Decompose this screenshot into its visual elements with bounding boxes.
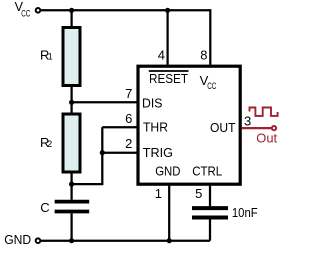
svg-text:1: 1: [155, 186, 162, 201]
svg-text:10nF: 10nF: [232, 205, 258, 220]
svg-text:8: 8: [200, 48, 207, 63]
svg-text:RESET: RESET: [149, 71, 188, 86]
wire C to ground rail: [70, 213, 72, 240]
wire pin 4 stub: [166, 10, 168, 65]
wire R2 bottom to THR/TRIG branch: [72, 127, 103, 184]
svg-text:THR: THR: [143, 119, 168, 134]
svg-text:4: 4: [158, 48, 165, 63]
wire VCC rail to pin 8: [41, 10, 210, 65]
svg-text:Out: Out: [256, 131, 277, 146]
svg-text:GND: GND: [155, 164, 180, 179]
square wave icon: [250, 108, 278, 116]
wire VCC rail to R1: [70, 10, 72, 26]
ground rail wire: [41, 240, 210, 242]
svg-text:CC: CC: [207, 81, 216, 91]
svg-text:CTRL: CTRL: [192, 164, 222, 179]
GND terminal: [36, 238, 41, 243]
wire TRIG to pin 2: [102, 152, 138, 154]
capacitor 10nF: [192, 208, 228, 217]
wire pin 1 to ground rail: [168, 186, 170, 241]
wire pin 3 OUT: [242, 127, 272, 129]
wire R1 to R2: [70, 87, 72, 113]
svg-text:GND: GND: [4, 232, 31, 247]
resistor R2: [63, 114, 80, 172]
svg-text:TRIG: TRIG: [143, 145, 173, 160]
svg-text:DIS: DIS: [142, 95, 163, 110]
wire THR to pin 6: [102, 126, 138, 128]
svg-text:C: C: [40, 200, 49, 215]
svg-text:CC: CC: [21, 9, 30, 19]
wire pin 5 to 10nF capacitor: [209, 186, 211, 207]
wire 10nF to ground rail: [209, 219, 211, 240]
label R2: [40, 135, 52, 150]
node R1 top junction: [69, 8, 74, 13]
svg-text:2: 2: [125, 136, 132, 151]
node DIS junction: [69, 100, 74, 105]
node pin1 ground junction: [167, 238, 172, 243]
wire R2 bottom to capacitor C: [70, 174, 72, 200]
svg-text:OUT: OUT: [210, 120, 236, 135]
svg-text:5: 5: [195, 186, 202, 201]
svg-text:3: 3: [244, 114, 251, 129]
VCC terminal: [36, 8, 41, 13]
svg-text:1: 1: [48, 51, 53, 61]
node pin4 junction: [165, 8, 170, 13]
node TRIG junction: [100, 150, 105, 155]
node R2 bottom junction: [69, 182, 74, 187]
svg-text:2: 2: [47, 139, 52, 149]
svg-text:6: 6: [125, 111, 132, 126]
node C ground junction: [69, 238, 74, 243]
VCC label: [15, 0, 31, 18]
label R1: [40, 47, 53, 62]
VCC pin name: [200, 73, 217, 91]
svg-text:7: 7: [125, 86, 132, 101]
resistor R1: [63, 28, 80, 86]
RESET pin name: [149, 71, 189, 86]
capacitor C: [55, 202, 90, 212]
wire DIS to pin 7: [72, 101, 138, 103]
Out terminal: [272, 126, 276, 130]
op-amp U1 555 timer body: [138, 66, 240, 184]
